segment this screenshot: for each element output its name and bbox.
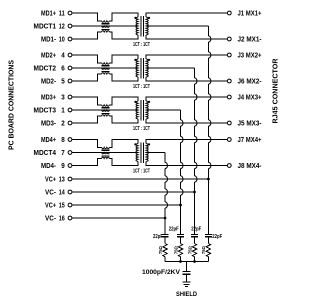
svg-text:8: 8 [61,135,65,144]
wire capacitor C5 to shield ground [186,274,188,282]
choke L4 winding top [102,147,110,148]
wire transformer T3 secondary center tap to termination column [146,109,180,111]
svg-text:75Ω: 75Ω [173,246,178,254]
choke L1 winding middle [102,26,110,27]
wire choke L4 to transformer T4 primary top [110,140,139,148]
pin 1 terminal circle [68,108,72,112]
svg-text:VC+: VC+ [45,175,56,184]
pin 3 terminal circle [68,95,72,99]
svg-text:1: 1 [61,106,65,115]
svg-text:1CT : 1CT: 1CT : 1CT [133,126,150,132]
choke L4 winding middle [102,153,110,154]
wire transformer T1 secondary top to J1 [146,13,227,17]
wire transformer T1 secondary bottom to J2 [146,35,227,39]
resistor R2 75 ohm [178,244,182,257]
pin 15 terminal circle [68,203,72,207]
svg-text:1CT : 1CT: 1CT : 1CT [133,84,150,90]
svg-text:MD4-: MD4- [41,161,56,170]
wire resistor R3 to common rail [194,257,196,262]
pin 12 terminal circle [68,24,72,28]
wire MD1+ pin to choke L1 [72,13,102,21]
choke L2 winding bottom [102,73,110,74]
choke L3 winding bottom [102,115,110,116]
transformer T3 secondary winding [146,101,148,119]
wire transformer T4 secondary bottom to J8 [146,162,227,166]
junction node VC 16 [164,217,167,220]
svg-text:MD1+: MD1+ [41,9,56,18]
transformer T1 polarity dot secondary [148,17,150,19]
pin J5 terminal circle [227,121,231,125]
choke L2 winding top [102,63,110,64]
transformer T1 secondary winding [146,17,148,35]
wire MDCT3 pin to transformer T3 primary center tap [72,109,138,111]
common termination rail [165,261,208,263]
svg-text:11: 11 [59,9,65,18]
transformer T2 core [140,58,142,79]
transformer T3 polarity dot primary [134,101,136,103]
svg-text:MDCT3: MDCT3 [34,106,57,115]
wire choke L2 to transformer T2 primary top [110,55,139,63]
wire choke L3 to transformer T3 primary bottom [110,116,139,123]
pin J3 terminal circle [227,53,231,57]
wire choke L1 to transformer T1 primary top [110,13,139,21]
svg-text:5: 5 [61,77,65,86]
svg-text:2: 2 [61,119,65,128]
wire MD1- pin to choke L1 [72,32,102,39]
pin 7 terminal circle [68,151,72,155]
svg-text:MDCT2: MDCT2 [34,64,57,73]
svg-text:22pF: 22pF [212,234,222,240]
svg-text:VC-: VC- [45,214,56,223]
transformer T2 secondary winding [146,59,148,77]
transformer T1 polarity dot primary [134,17,136,19]
svg-text:75Ω: 75Ω [158,246,163,254]
pin J1 terminal circle [227,11,231,15]
svg-text:J2 MX1-: J2 MX1- [238,35,262,44]
pin J2 terminal circle [227,37,231,41]
pin J8 terminal circle [227,164,231,168]
junction node VC 14 [193,191,196,194]
choke L2 winding middle [102,68,110,69]
pin 5 terminal circle [68,79,72,83]
svg-text:16: 16 [59,214,65,223]
pin 6 terminal circle [68,66,72,70]
wire transformer T2 secondary center tap to termination column [146,67,194,69]
svg-text:1CT : 1CT: 1CT : 1CT [133,168,150,174]
wire VC pin 16 to termination column [72,217,165,219]
wire VC pin 14 to termination column [72,191,195,193]
choke L3 winding top [102,105,110,106]
svg-text:MD1-: MD1- [41,35,56,44]
transformer T4 primary winding [136,144,138,162]
choke L2 core [102,65,110,67]
wire choke L1 to transformer T1 primary bottom [110,32,139,39]
capacitor C4 22pF [205,233,212,235]
svg-text:4: 4 [61,51,65,60]
svg-text:MD3+: MD3+ [41,93,56,102]
svg-text:J7 MX4+: J7 MX4+ [238,135,262,144]
junction node rail column 3 [193,260,196,263]
transformer T2 primary winding [136,59,138,77]
wire resistor R2 to common rail [180,257,182,262]
wire VC pin 15 to termination column [72,204,181,206]
pin 8 terminal circle [68,138,72,142]
svg-text:MD4+: MD4+ [41,135,56,144]
wire MD3+ pin to choke L3 [72,97,102,105]
wire resistor R1 to common rail [164,257,166,262]
svg-text:J1 MX1+: J1 MX1+ [238,9,262,18]
choke L3 winding middle [102,110,110,111]
svg-text:MDCT4: MDCT4 [34,148,57,157]
capacitor C3 22pF [191,233,198,235]
termination column 2 vertical wire with crossover hops [180,110,182,120]
junction node VC 15 [179,204,182,207]
pin 13 terminal circle [68,177,72,181]
transformer T1 primary winding [136,17,138,35]
svg-text:75Ω: 75Ω [201,246,206,254]
svg-text:15: 15 [59,201,65,210]
wire rail to capacitor C5 [186,262,188,272]
wire MD2- pin to choke L2 [72,74,102,81]
termination column 3 vertical wire with crossover hops [194,68,196,78]
wire VC pin 13 to termination column [72,178,209,180]
svg-text:22pF: 22pF [169,226,179,232]
svg-text:12: 12 [59,22,65,31]
svg-text:J8 MX4-: J8 MX4- [238,161,262,170]
svg-text:MD2-: MD2- [41,77,56,86]
svg-text:14: 14 [59,188,66,197]
svg-text:3: 3 [61,93,65,102]
transformer T4 polarity dot secondary [148,143,150,145]
junction node VC 13 [207,178,210,181]
wire transformer T4 secondary center tap to termination column [146,152,165,154]
wire choke L2 to transformer T2 primary bottom [110,74,139,81]
capacitor C5 1000pF/2KV [183,270,191,272]
svg-text:J5 MX3-: J5 MX3- [238,119,262,128]
transformer T2 polarity dot primary [134,59,136,61]
resistor R4 75 ohm [206,244,210,257]
wire resistor R4 to common rail [207,257,209,262]
choke L4 winding bottom [102,157,110,158]
junction node rail column 2 [179,260,182,263]
termination column 4 vertical wire with crossover hops [207,26,209,36]
wire MDCT1 pin to transformer T1 primary center tap [72,25,138,27]
choke L4 core [102,149,110,151]
pin 16 terminal circle [68,216,72,220]
choke L3 core [102,107,110,109]
wire MDCT4 pin to transformer T4 primary center tap [72,152,138,154]
transformer T3 primary winding [136,101,138,119]
wire transformer T1 secondary center tap to termination column [146,25,208,27]
svg-text:VC-: VC- [45,188,56,197]
wire transformer T3 secondary top to J4 [146,97,227,101]
transformer T1 core [140,16,142,37]
termination column 1 vertical wire with crossover hops [164,153,166,163]
svg-text:PC BOARD CONNECTIONS: PC BOARD CONNECTIONS [7,60,16,150]
svg-text:10: 10 [59,35,65,44]
svg-text:J3 MX2+: J3 MX2+ [238,51,262,60]
svg-text:9: 9 [61,161,65,170]
capacitor C1 22pF [161,233,168,235]
svg-text:VC+: VC+ [45,201,56,210]
transformer T3 core [140,100,142,121]
wire choke L4 to transformer T4 primary bottom [110,159,139,166]
wire capacitor C2 to resistor R2 [180,237,182,244]
wire transformer T2 secondary top to J3 [146,55,227,59]
resistor R3 75 ohm [192,244,196,257]
transformer T4 secondary winding [146,144,148,162]
svg-text:MDCT1: MDCT1 [34,22,57,31]
wire MD4- pin to choke L4 [72,159,102,166]
wire choke L3 to transformer T3 primary top [110,97,139,105]
pin J7 terminal circle [227,138,231,142]
ground symbol SHIELD [182,281,190,283]
pin J6 terminal circle [227,79,231,83]
choke L1 winding top [102,21,110,22]
choke L1 winding bottom [102,31,110,32]
wire MD4+ pin to choke L4 [72,140,102,148]
wire MDCT2 pin to transformer T2 primary center tap [72,67,138,69]
transformer T3 polarity dot secondary [148,101,150,103]
svg-text:1000pF/2KV: 1000pF/2KV [142,269,181,276]
pin 10 terminal circle [68,37,72,41]
wire capacitor C1 to resistor R1 [164,237,166,244]
pin 2 terminal circle [68,121,72,125]
svg-text:22pF: 22pF [153,234,163,240]
wire transformer T4 secondary top to J7 [146,140,227,144]
capacitor C2 22pF [177,233,184,235]
svg-text:SHIELD: SHIELD [176,291,197,298]
svg-text:J6 MX2-: J6 MX2- [238,77,262,86]
wire transformer T2 secondary bottom to J6 [146,77,227,81]
svg-text:MD3-: MD3- [41,119,56,128]
resistor R1 75 ohm [163,244,167,257]
transformer T2 polarity dot secondary [148,59,150,61]
svg-text:22pF: 22pF [191,226,201,232]
wire capacitor C4 to resistor R4 [207,237,209,244]
svg-text:J4 MX3+: J4 MX3+ [238,93,262,102]
svg-text:13: 13 [59,175,65,184]
svg-text:RJ45 CONNECTOR: RJ45 CONNECTOR [271,58,280,124]
wire MD2+ pin to choke L2 [72,55,102,63]
wire capacitor C3 to resistor R3 [194,237,196,244]
transformer T4 polarity dot primary [134,143,136,145]
svg-text:6: 6 [61,64,65,73]
pin 4 terminal circle [68,53,72,57]
pin 14 terminal circle [68,190,72,194]
choke L1 core [102,23,110,25]
transformer T4 core [140,143,142,164]
pin 11 terminal circle [68,11,72,15]
pin 9 terminal circle [68,164,72,168]
svg-text:MD2+: MD2+ [41,51,56,60]
svg-text:75Ω: 75Ω [187,246,192,254]
wire transformer T3 secondary bottom to J5 [146,119,227,123]
svg-text:1CT : 1CT: 1CT : 1CT [133,42,150,48]
svg-text:7: 7 [61,148,65,157]
pin J4 terminal circle [227,95,231,99]
wire MD3- pin to choke L3 [72,116,102,123]
